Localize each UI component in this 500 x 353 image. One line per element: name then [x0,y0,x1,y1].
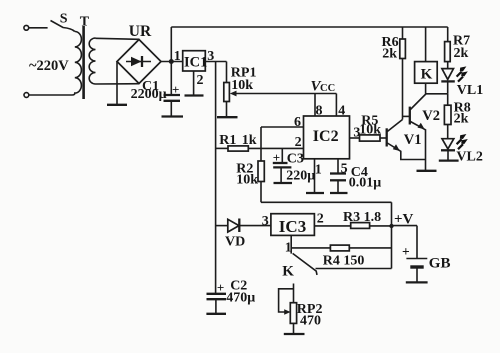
svg-text:R1: R1 [219,133,236,148]
svg-text:3: 3 [262,214,269,229]
svg-text:10k: 10k [231,78,253,93]
svg-text:V1: V1 [404,132,422,148]
svg-text:+: + [217,280,224,295]
svg-text:+: + [273,150,280,165]
svg-text:CC: CC [320,83,335,94]
svg-text:2: 2 [317,212,324,227]
svg-text:2k: 2k [454,46,469,61]
svg-text:VL2: VL2 [456,150,482,165]
svg-text:0.01μ: 0.01μ [349,175,382,190]
svg-text:VD: VD [225,235,245,250]
svg-text:6: 6 [294,115,301,130]
svg-text:2: 2 [295,135,302,150]
svg-text:T: T [80,15,90,30]
svg-text:470μ: 470μ [226,290,255,305]
svg-text:V2: V2 [422,108,440,124]
svg-text:IC1: IC1 [184,55,207,71]
svg-text:IC3: IC3 [279,217,306,236]
svg-text:C3: C3 [287,151,304,166]
svg-text:K: K [282,264,294,280]
svg-text:R3 1.8: R3 1.8 [343,210,381,225]
svg-text:8: 8 [316,104,323,119]
svg-text:K: K [421,67,433,83]
svg-text:+: + [172,82,179,97]
svg-text:S: S [60,12,68,27]
svg-text:2200μ: 2200μ [131,87,167,102]
svg-text:IC2: IC2 [313,128,339,145]
svg-text:1: 1 [285,241,292,256]
svg-text:VL1: VL1 [457,83,483,98]
svg-text:2k: 2k [454,112,469,127]
svg-text:10k: 10k [236,172,258,187]
svg-text:10k: 10k [359,123,381,138]
svg-text:3: 3 [207,49,214,64]
svg-text:470: 470 [300,313,321,328]
svg-text:+V: +V [394,211,414,227]
svg-text:1k: 1k [242,133,257,148]
svg-text:1: 1 [315,163,322,178]
svg-text:220μ: 220μ [286,169,315,184]
svg-text:~220V: ~220V [29,58,69,74]
svg-text:1: 1 [174,49,181,64]
svg-text:2: 2 [197,73,204,88]
svg-text:GB: GB [429,256,451,272]
svg-text:R4 150: R4 150 [323,253,365,268]
svg-text:+: + [402,244,410,259]
svg-text:2k: 2k [382,47,397,62]
svg-text:4: 4 [338,104,345,119]
svg-text:UR: UR [129,23,152,40]
svg-text:5: 5 [341,162,348,177]
